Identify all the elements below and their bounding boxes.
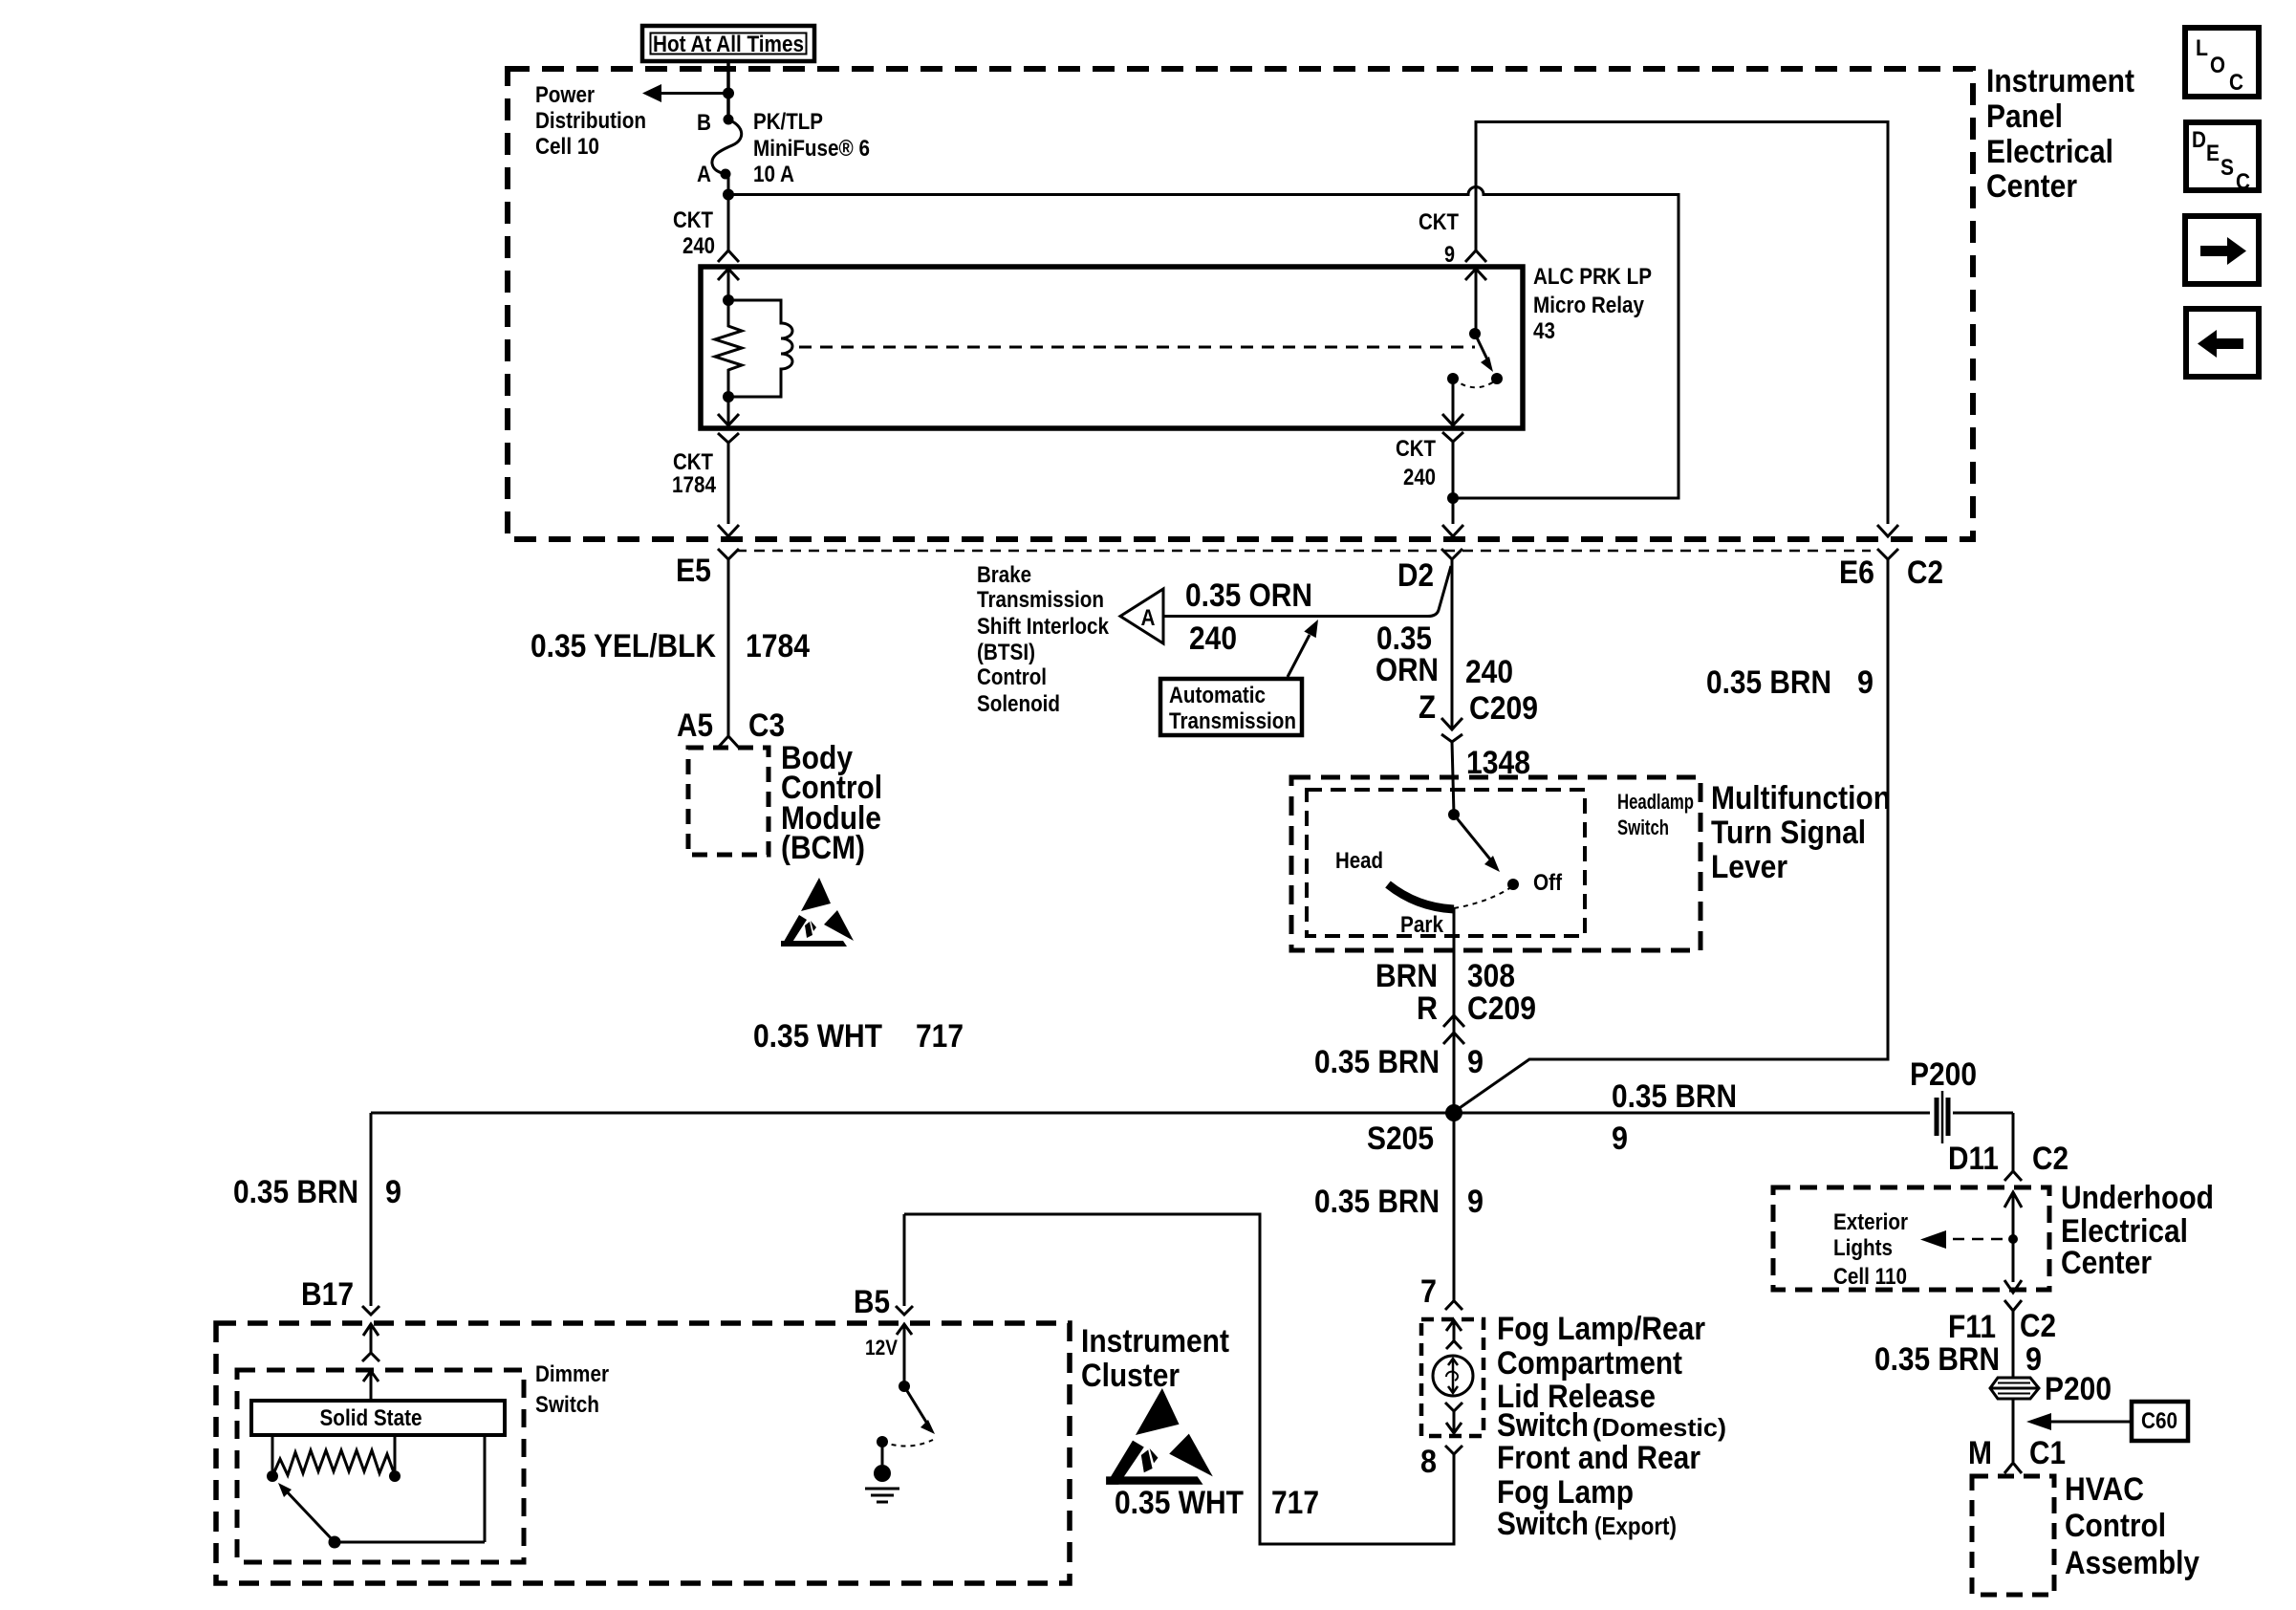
svg-text:C209: C209 [1469,690,1538,727]
svg-text:D: D [2192,127,2206,153]
svg-text:Instrument: Instrument [1986,63,2134,99]
svg-text:ALC PRK LP: ALC PRK LP [1533,264,1652,290]
svg-text:Off: Off [1533,870,1563,896]
svg-text:Instrument: Instrument [1081,1323,1229,1360]
svg-text:1784: 1784 [746,628,810,664]
svg-text:0.35 YEL/BLK: 0.35 YEL/BLK [531,628,716,664]
svg-text:8: 8 [1420,1444,1437,1480]
svg-text:(BTSI): (BTSI) [977,640,1035,665]
svg-text:Headlamp: Headlamp [1617,790,1694,814]
svg-text:Lever: Lever [1711,849,1787,885]
svg-text:Distribution: Distribution [535,108,646,134]
svg-text:Automatic: Automatic [1169,683,1266,708]
svg-text:0.35 BRN: 0.35 BRN [1874,1341,2000,1378]
svg-text:9: 9 [1612,1120,1628,1157]
svg-text:0.35 WHT: 0.35 WHT [1115,1485,1244,1521]
svg-text:Micro Relay: Micro Relay [1533,293,1645,318]
svg-text:9: 9 [1444,242,1455,268]
svg-text:BRN: BRN [1375,958,1438,994]
svg-text:240: 240 [1189,620,1237,657]
svg-text:0.35 BRN: 0.35 BRN [1612,1078,1737,1115]
svg-text:717: 717 [916,1018,964,1055]
svg-text:CKT: CKT [1419,209,1459,235]
svg-text:E6: E6 [1839,555,1874,591]
svg-text:Park: Park [1400,912,1444,938]
svg-text:CKT: CKT [673,449,713,475]
svg-text:M: M [1968,1435,1992,1471]
svg-text:10 A: 10 A [753,162,794,187]
svg-text:Z: Z [1419,689,1436,726]
svg-text:O: O [2210,53,2225,78]
svg-text:Center: Center [1986,168,2077,205]
svg-text:F11: F11 [1948,1309,1996,1345]
svg-text:B: B [697,110,711,136]
svg-text:(Export): (Export) [1594,1512,1677,1540]
svg-text:0.35 BRN: 0.35 BRN [233,1174,358,1210]
svg-text:C209: C209 [1467,990,1536,1027]
svg-text:P200: P200 [1910,1056,1977,1093]
svg-text:Solid State: Solid State [320,1405,422,1431]
svg-text:Power: Power [535,82,595,108]
svg-text:A: A [697,162,711,187]
svg-text:A: A [1141,605,1156,631]
svg-text:0.35 BRN: 0.35 BRN [1314,1044,1440,1080]
svg-text:HVAC: HVAC [2065,1471,2144,1508]
svg-text:Compartment: Compartment [1497,1345,1682,1382]
svg-text:ORN: ORN [1375,652,1439,688]
svg-text:Switch: Switch [1497,1407,1589,1444]
svg-text:D11: D11 [1948,1141,1999,1177]
svg-text:L: L [2196,35,2208,61]
svg-text:CKT: CKT [673,207,713,233]
svg-text:Panel: Panel [1986,98,2063,135]
svg-text:A5: A5 [677,707,713,744]
svg-text:Solenoid: Solenoid [977,691,1060,717]
svg-text:B17: B17 [301,1276,354,1313]
svg-text:MiniFuse® 6: MiniFuse® 6 [753,136,870,162]
svg-text:B5: B5 [854,1284,890,1320]
svg-text:9: 9 [1857,664,1874,701]
svg-text:12V: 12V [865,1336,898,1360]
svg-text:(Domestic): (Domestic) [1592,1413,1726,1442]
svg-text:Center: Center [2061,1245,2152,1281]
svg-text:Transmission: Transmission [1169,708,1296,734]
svg-text:CKT: CKT [1396,436,1436,462]
svg-text:Cell 110: Cell 110 [1833,1264,1907,1290]
svg-text:Control: Control [2065,1508,2166,1544]
svg-text:Switch: Switch [1497,1506,1589,1542]
svg-text:9: 9 [1467,1184,1484,1220]
svg-text:Multifunction: Multifunction [1711,780,1891,816]
svg-text:9: 9 [1467,1044,1484,1080]
svg-text:Control: Control [977,664,1047,690]
svg-text:C: C [2236,169,2250,195]
svg-text:C2: C2 [2020,1308,2056,1344]
svg-text:Underhood: Underhood [2061,1180,2214,1216]
svg-text:Transmission: Transmission [977,587,1104,613]
svg-text:C: C [2229,70,2243,96]
svg-text:Brake: Brake [977,562,1031,588]
svg-text:C60: C60 [2141,1408,2177,1434]
svg-text:Dimmer: Dimmer [535,1361,609,1387]
svg-text:Cell 10: Cell 10 [535,134,599,160]
svg-text:S205: S205 [1367,1120,1434,1157]
svg-text:240: 240 [682,233,715,259]
svg-text:717: 717 [1271,1485,1319,1521]
svg-text:308: 308 [1467,958,1515,994]
svg-text:C1: C1 [2029,1435,2066,1471]
svg-text:Exterior: Exterior [1833,1209,1908,1235]
svg-text:0.35 BRN: 0.35 BRN [1706,664,1831,701]
svg-text:Fog Lamp/Rear: Fog Lamp/Rear [1497,1311,1705,1347]
svg-text:C2: C2 [1907,555,1943,591]
svg-text:Electrical: Electrical [1986,134,2113,170]
svg-text:7: 7 [1420,1273,1437,1310]
svg-text:9: 9 [2025,1341,2042,1378]
svg-text:Switch: Switch [1617,816,1669,839]
svg-text:Shift Interlock: Shift Interlock [977,614,1110,640]
svg-text:P200: P200 [2045,1371,2112,1407]
svg-text:E: E [2206,141,2220,166]
svg-text:C3: C3 [748,707,785,744]
svg-text:Head: Head [1335,848,1383,874]
svg-text:S: S [2220,155,2234,181]
svg-text:Lights: Lights [1833,1235,1893,1261]
svg-text:D2: D2 [1397,557,1434,594]
svg-text:Cluster: Cluster [1081,1358,1180,1394]
svg-text:0.35 WHT: 0.35 WHT [753,1018,882,1055]
svg-text:R: R [1417,990,1438,1027]
svg-text:PK/TLP: PK/TLP [753,109,823,135]
svg-text:9: 9 [385,1174,401,1210]
svg-text:C2: C2 [2032,1141,2069,1177]
svg-text:240: 240 [1403,465,1436,490]
svg-text:240: 240 [1465,654,1513,690]
svg-text:Switch: Switch [535,1392,599,1418]
svg-text:0.35 ORN: 0.35 ORN [1185,577,1312,614]
svg-text:E5: E5 [676,553,711,589]
svg-text:Turn Signal: Turn Signal [1711,815,1866,851]
svg-text:(BCM): (BCM) [781,830,865,866]
svg-text:Hot At All Times: Hot At All Times [653,32,804,57]
svg-text:43: 43 [1533,318,1555,344]
svg-text:0.35 BRN: 0.35 BRN [1314,1184,1440,1220]
svg-text:Front and Rear: Front and Rear [1497,1440,1700,1476]
svg-text:Assembly: Assembly [2065,1545,2199,1581]
svg-text:1784: 1784 [672,472,717,498]
